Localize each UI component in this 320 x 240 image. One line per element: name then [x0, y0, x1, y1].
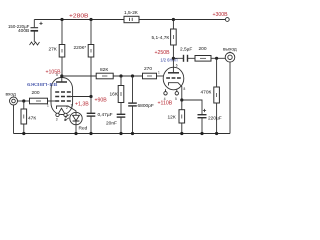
node 6800pF top: [131, 74, 134, 77]
tube V2 grid: [166, 77, 181, 79]
svg-text:5,1-4,7К: 5,1-4,7К: [152, 35, 170, 41]
svg-text:3: 3: [56, 118, 58, 122]
node 16K top: [119, 74, 122, 77]
svg-text:7: 7: [71, 104, 73, 108]
tube V1 6Zh38P-EV envelope: [51, 78, 73, 115]
svg-text:270: 270: [144, 66, 152, 72]
node gnd 47K: [22, 132, 25, 135]
svg-text:+1,3В: +1,3В: [75, 102, 89, 108]
resistor 16K: [118, 76, 124, 114]
capacitor C-filter 150-220uF 400V: [31, 20, 43, 43]
LED Red: [65, 112, 83, 124]
node gnd 220uF: [200, 132, 203, 135]
svg-text:16К: 16К: [110, 92, 118, 98]
svg-text:+280В: +280В: [69, 13, 89, 19]
capacitor 6800pF: [128, 76, 137, 134]
wire output jack ground down: [229, 62, 231, 133]
svg-text:5: 5: [175, 97, 177, 101]
terminal input jack: [10, 97, 18, 105]
svg-text:220К*: 220К*: [74, 45, 87, 51]
node input: [22, 99, 25, 102]
resistor 47K: [21, 101, 27, 134]
tube V2 cathode: [169, 83, 182, 100]
node gnd 20nF: [119, 132, 122, 135]
resistor 470K: [214, 58, 220, 133]
node gnd 6800pF: [131, 132, 134, 135]
node rail-5,1-4,7K: [172, 18, 175, 21]
svg-text:400В: 400В: [18, 28, 29, 34]
terminal +300V: [225, 18, 229, 22]
wire: +300V top rail: [34, 19, 225, 21]
svg-text:2,5µF: 2,5µF: [180, 47, 192, 53]
resistor 200 grid stopper: [30, 98, 56, 104]
node anode V2: [172, 57, 175, 60]
node output: [215, 57, 218, 60]
svg-text:200: 200: [32, 90, 40, 96]
svg-text:1: 1: [47, 104, 49, 108]
node gnd 0,47uF: [89, 132, 92, 135]
resistor R-filter 1,5-2K inline in rail: [124, 16, 139, 22]
svg-text:2: 2: [66, 106, 68, 110]
svg-text:6Ж38П-ЕВ: 6Ж38П-ЕВ: [27, 82, 58, 87]
svg-text:47К: 47К: [28, 116, 36, 122]
svg-text:27К: 27К: [49, 46, 57, 52]
wire anode to 82K: [62, 75, 96, 77]
svg-text:470К: 470К: [201, 90, 212, 96]
node gnd LED: [74, 132, 77, 135]
svg-text:+300В: +300В: [213, 12, 229, 18]
wire screen g2 to 220K node: [71, 96, 91, 98]
svg-text:+90В: +90В: [95, 98, 108, 104]
wire 82K to 270: [113, 75, 142, 77]
svg-text:1: 1: [158, 71, 160, 75]
svg-text:Red: Red: [79, 126, 88, 132]
svg-text:200: 200: [199, 46, 207, 52]
svg-text:+250В: +250В: [155, 50, 171, 56]
resistor 82K: [96, 73, 113, 79]
resistor 5,1-4,7K: [171, 20, 177, 59]
tube V2 1/2 6N6P envelope: [163, 67, 184, 90]
ground chassis below filter cap: [30, 42, 40, 45]
capacitor 0,47uF: [87, 97, 96, 134]
node gnd 470K: [215, 132, 218, 135]
resistor 270: [143, 73, 164, 79]
svg-text:12К: 12К: [168, 115, 176, 121]
node cathode V2: [180, 98, 183, 101]
svg-text:220µF: 220µF: [208, 116, 222, 122]
capacitor 2,5uF: [173, 55, 195, 62]
svg-text:+110В: +110В: [158, 101, 173, 107]
capacitor 20nF: [117, 114, 126, 133]
svg-text:20nF: 20nF: [106, 121, 117, 127]
svg-text:0,47µF: 0,47µF: [98, 112, 113, 118]
node anode V1: [60, 74, 63, 77]
tube V2 anode: [168, 58, 179, 73]
tube V1 grid g2: [55, 96, 71, 98]
tube V1 cathode: [57, 106, 77, 113]
resistor 27K: [59, 20, 65, 75]
svg-text:82К: 82К: [100, 67, 108, 73]
svg-text:5: 5: [56, 73, 58, 77]
svg-text:+105В: +105В: [46, 70, 62, 76]
tube V1 anode: [56, 76, 67, 82]
wire input to node: [18, 100, 30, 102]
resistor 12K: [179, 100, 185, 134]
node gnd 12K: [180, 132, 183, 135]
svg-text:6800pF: 6800pF: [138, 103, 154, 109]
capacitor 220uF: [182, 100, 207, 134]
resistor 200 output: [195, 56, 225, 62]
wire input ground down: [13, 105, 15, 134]
heater pin circles: [56, 113, 59, 116]
tube V1 grid g1: [55, 100, 71, 102]
node screen: [89, 95, 92, 98]
tube V1 grid g3: [55, 91, 71, 93]
wire LED to ground: [75, 125, 77, 134]
tube V1 heater: [59, 108, 65, 113]
svg-text:6: 6: [176, 64, 178, 68]
tube V2 heater pins: [164, 92, 167, 95]
resistor 220K*: [88, 20, 94, 96]
wire ground rail: [14, 133, 231, 135]
svg-text:8: 8: [184, 87, 186, 91]
terminal output jack: [225, 52, 235, 63]
node rail-27K: [60, 18, 63, 21]
node rail-220K: [89, 18, 92, 21]
svg-text:1,5-2К: 1,5-2К: [124, 10, 138, 16]
